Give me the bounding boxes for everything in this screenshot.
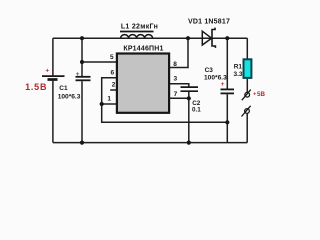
svg-text:C1: C1 — [59, 85, 68, 92]
diode VD1 1N5817 — [188, 18, 230, 48]
wire terminal X2 to bottom rail — [246, 114, 248, 143]
junction dot pin1 — [100, 102, 104, 106]
wire pin5 to C1 column — [82, 61, 117, 63]
wire left rail lower — [52, 81, 54, 143]
IC DA1 КР1446ПН1 — [117, 45, 169, 112]
capacitor C2 — [181, 87, 202, 143]
svg-text:0.1: 0.1 — [192, 106, 201, 113]
terminal X2 — [242, 106, 251, 117]
svg-text:2: 2 — [112, 82, 116, 89]
svg-text:100*6.3: 100*6.3 — [58, 93, 81, 100]
pin 7 stub — [170, 97, 189, 99]
terminal X1 +5В — [242, 90, 266, 101]
capacitor C3 — [204, 38, 234, 142]
capacitor C1 — [58, 38, 91, 142]
svg-text:КР1446ПН1: КР1446ПН1 — [123, 45, 163, 52]
pin 1 stub — [102, 103, 117, 105]
junction dot top rail / C3 — [225, 36, 229, 40]
svg-text:3.3: 3.3 — [234, 71, 243, 78]
battery GB1 1.5В — [25, 67, 64, 92]
wire top rail — [53, 37, 247, 39]
wire top rail corner to R1 — [246, 38, 248, 59]
svg-text:+: + — [221, 81, 225, 88]
svg-text:+: + — [45, 67, 49, 74]
junction dot pin7 / C2 — [187, 96, 191, 100]
pin 2 lead — [110, 89, 116, 91]
svg-text:+: + — [76, 71, 80, 78]
pin 6 stub and tie vertical and gnd tie wire — [102, 78, 228, 123]
svg-text:7: 7 — [174, 91, 178, 98]
junction dot pin5 tee — [80, 60, 84, 64]
svg-text:+: + — [253, 92, 256, 98]
junction dot bottom rail / C2 — [187, 141, 191, 145]
svg-text:5: 5 — [110, 54, 114, 61]
svg-text:1: 1 — [107, 95, 111, 102]
svg-text:8: 8 — [173, 61, 177, 68]
svg-text:L1 22мкГн: L1 22мкГн — [121, 23, 158, 30]
svg-text:1.5В: 1.5В — [25, 82, 47, 92]
svg-text:5В: 5В — [257, 91, 265, 98]
svg-text:3: 3 — [174, 76, 178, 83]
wire R1 to terminal — [246, 79, 248, 92]
junction dot C3 / gnd tie — [225, 120, 229, 124]
junction dot bottom rail / C1 — [80, 141, 84, 145]
resistor R1 3.3 — [234, 59, 252, 78]
svg-text:100*6.3: 100*6.3 — [204, 75, 227, 82]
svg-text:R1: R1 — [234, 64, 243, 71]
pin 8 wire to top rail — [170, 38, 189, 67]
wire left rail upper — [52, 38, 54, 75]
svg-text:VD1 1N5817: VD1 1N5817 — [188, 18, 230, 25]
junction dot top rail / pin8 — [186, 36, 190, 40]
svg-text:C3: C3 — [205, 67, 214, 74]
inductor L1 22мкГн — [120, 23, 158, 38]
pin 3 wire to C2 — [170, 84, 189, 87]
junction dot top rail / C1 — [80, 36, 84, 40]
wire bottom rail — [53, 142, 247, 144]
svg-text:6: 6 — [110, 69, 114, 76]
